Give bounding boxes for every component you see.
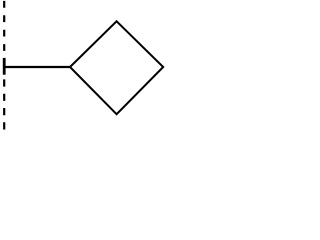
terminal tick — [3, 58, 6, 75]
wire — [4, 66, 71, 68]
dashed boundary line (upper segment) — [3, 1, 5, 58]
dashed boundary line (lower segment) — [3, 79, 5, 130]
decision diamond — [70, 21, 163, 114]
